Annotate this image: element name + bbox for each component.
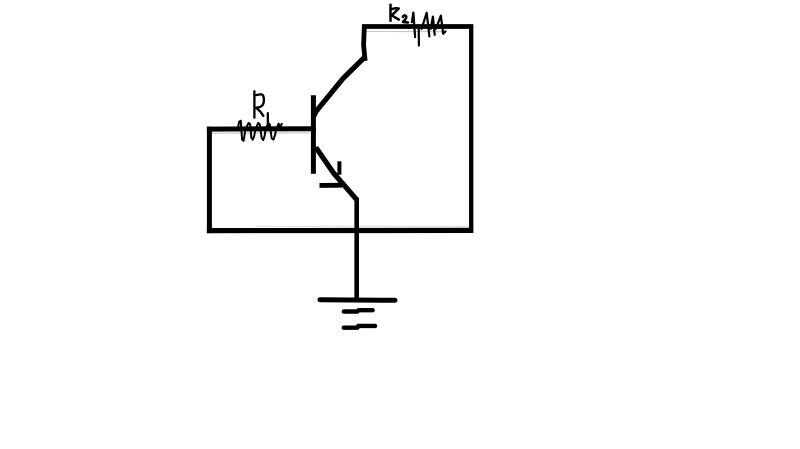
label R2 (handwritten R with subscript 2) xyxy=(391,5,408,23)
resistor R1 squiggle (scribble over base wire) xyxy=(238,121,282,141)
wire: left vertical of base loop xyxy=(207,129,212,231)
transistor Q1 base bar xyxy=(311,98,316,172)
ground top bar xyxy=(320,297,395,303)
transistor Q1 emitter arrow barb (vertical tick) xyxy=(337,163,341,172)
ground middle bar xyxy=(344,310,373,311)
transistor Q1 emitter diagonal xyxy=(316,147,357,200)
label R1 (handwritten R with subscript 1) xyxy=(254,91,268,126)
wire: emitter vertical down to bottom wire and ground lead xyxy=(354,200,359,298)
ground bottom bar xyxy=(344,326,375,328)
wire: right vertical (collector supply side) xyxy=(469,27,473,231)
wire: top horizontal (R2 wire) xyxy=(364,27,471,32)
wire: bottom horizontal (emitter/loop bottom) xyxy=(210,226,471,230)
transistor Q1 emitter arrow barb (horizontal tick) xyxy=(322,183,340,188)
resistor R2 squiggle (scribble over top wire) xyxy=(412,13,446,46)
wire: collector diagonal lead xyxy=(314,57,365,116)
wire: short vertical drop from top wire xyxy=(364,27,365,59)
wire: base loop top (left horizontal to transistor base) xyxy=(209,129,313,133)
